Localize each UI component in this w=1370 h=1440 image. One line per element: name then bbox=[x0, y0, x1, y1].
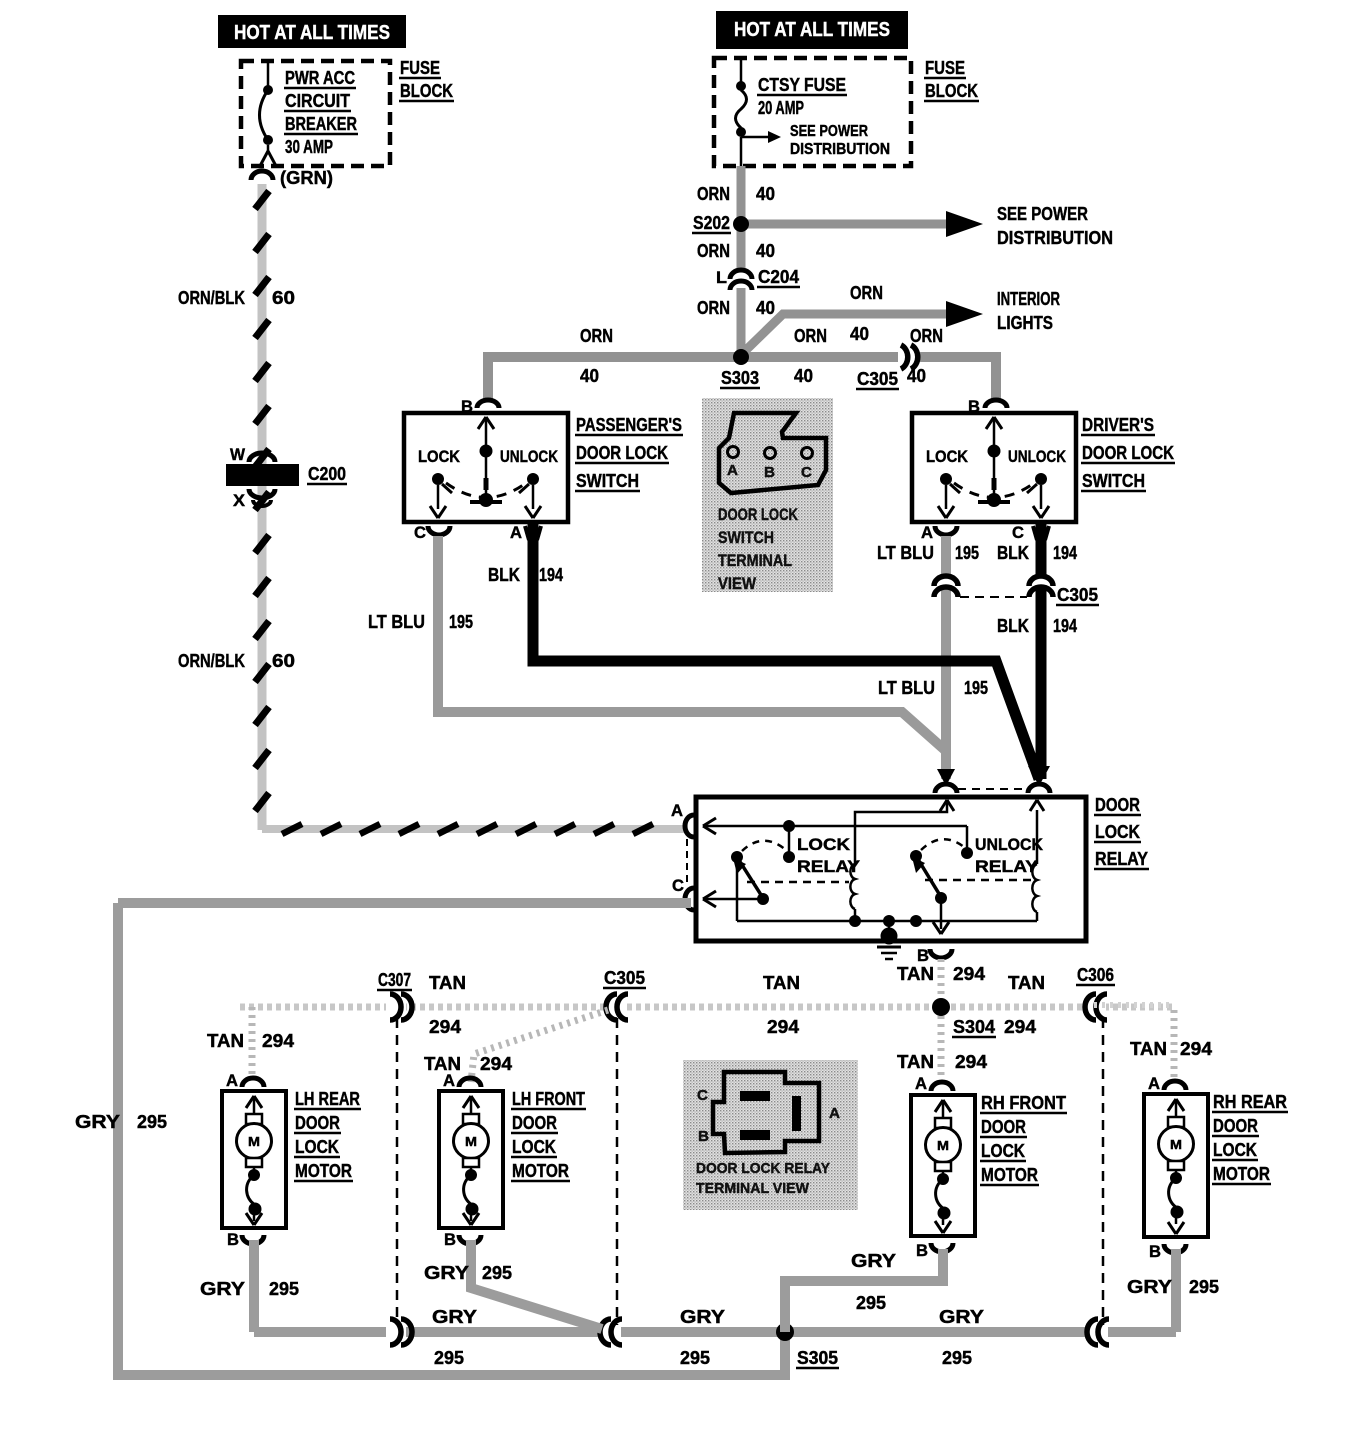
svg-text:LOCK: LOCK bbox=[926, 447, 969, 466]
svg-text:295: 295 bbox=[856, 1293, 886, 1313]
svg-text:LH FRONT: LH FRONT bbox=[512, 1089, 585, 1109]
svg-text:TAN: TAN bbox=[207, 1031, 244, 1051]
svg-text:ORN: ORN bbox=[697, 241, 730, 261]
svg-text:DOOR LOCK: DOOR LOCK bbox=[1082, 443, 1174, 463]
svg-text:195: 195 bbox=[449, 612, 473, 632]
svg-text:B: B bbox=[227, 1230, 239, 1249]
svg-text:BLK: BLK bbox=[997, 616, 1029, 636]
svg-text:40: 40 bbox=[580, 366, 599, 386]
svg-text:DISTRIBUTION: DISTRIBUTION bbox=[790, 141, 890, 158]
svg-text:SWITCH: SWITCH bbox=[576, 471, 639, 491]
svg-text:BREAKER: BREAKER bbox=[285, 114, 357, 134]
svg-text:294: 294 bbox=[429, 1017, 461, 1037]
svg-text:40: 40 bbox=[794, 366, 813, 386]
svg-text:294: 294 bbox=[955, 1052, 987, 1072]
svg-text:ORN: ORN bbox=[850, 283, 883, 303]
svg-text:B: B bbox=[1149, 1242, 1161, 1261]
svg-text:MOTOR: MOTOR bbox=[1213, 1164, 1270, 1184]
svg-text:LOCK: LOCK bbox=[797, 835, 851, 854]
svg-text:C305: C305 bbox=[857, 369, 898, 389]
svg-text:40: 40 bbox=[850, 324, 869, 344]
svg-text:194: 194 bbox=[539, 565, 563, 585]
svg-text:TAN: TAN bbox=[429, 973, 466, 993]
svg-text:S202: S202 bbox=[693, 213, 730, 233]
svg-text:295: 295 bbox=[434, 1348, 464, 1368]
svg-text:ORN/BLK: ORN/BLK bbox=[178, 288, 245, 308]
svg-text:X: X bbox=[233, 491, 246, 510]
svg-text:TAN: TAN bbox=[897, 1052, 934, 1072]
svg-text:C: C bbox=[672, 876, 684, 895]
svg-text:TAN: TAN bbox=[1008, 973, 1045, 993]
svg-text:SEE POWER: SEE POWER bbox=[790, 123, 868, 140]
svg-text:C200: C200 bbox=[308, 464, 346, 484]
svg-text:GRY: GRY bbox=[200, 1279, 245, 1299]
svg-text:295: 295 bbox=[1189, 1277, 1219, 1297]
svg-text:ORN: ORN bbox=[794, 326, 827, 346]
svg-text:ORN: ORN bbox=[697, 184, 730, 204]
svg-text:LT BLU: LT BLU bbox=[368, 612, 425, 632]
svg-text:LOCK: LOCK bbox=[981, 1141, 1025, 1161]
svg-text:DRIVER'S: DRIVER'S bbox=[1082, 415, 1154, 435]
svg-text:40: 40 bbox=[907, 366, 926, 386]
svg-text:MOTOR: MOTOR bbox=[295, 1161, 352, 1181]
svg-text:GRY: GRY bbox=[75, 1112, 120, 1132]
svg-text:DOOR LOCK RELAY: DOOR LOCK RELAY bbox=[696, 1160, 830, 1177]
svg-text:ORN: ORN bbox=[697, 298, 730, 318]
svg-text:B: B bbox=[968, 397, 980, 416]
svg-text:SEE POWER: SEE POWER bbox=[997, 204, 1088, 224]
svg-text:A: A bbox=[226, 1071, 238, 1090]
svg-text:TAN: TAN bbox=[897, 964, 934, 984]
svg-text:TAN: TAN bbox=[763, 973, 800, 993]
svg-text:295: 295 bbox=[942, 1348, 972, 1368]
svg-text:A: A bbox=[1148, 1074, 1160, 1093]
svg-text:195: 195 bbox=[955, 543, 979, 563]
svg-text:B: B bbox=[916, 1241, 928, 1260]
svg-text:40: 40 bbox=[756, 184, 775, 204]
svg-text:A: A bbox=[727, 462, 738, 479]
svg-text:C204: C204 bbox=[758, 267, 799, 287]
svg-text:CIRCUIT: CIRCUIT bbox=[285, 91, 350, 111]
svg-text:PWR ACC: PWR ACC bbox=[285, 68, 355, 88]
svg-text:40: 40 bbox=[756, 241, 775, 261]
svg-text:DISTRIBUTION: DISTRIBUTION bbox=[997, 228, 1113, 248]
svg-text:BLOCK: BLOCK bbox=[925, 81, 978, 101]
svg-text:A: A bbox=[921, 523, 933, 542]
svg-text:C: C bbox=[1012, 523, 1024, 542]
svg-text:C307: C307 bbox=[378, 970, 411, 990]
svg-text:294: 294 bbox=[1004, 1017, 1036, 1037]
svg-text:295: 295 bbox=[482, 1263, 512, 1283]
svg-text:LOCK: LOCK bbox=[512, 1137, 556, 1157]
svg-text:L: L bbox=[716, 268, 727, 287]
svg-text:A: A bbox=[915, 1074, 927, 1093]
svg-text:295: 295 bbox=[137, 1112, 167, 1132]
svg-text:294: 294 bbox=[1180, 1039, 1212, 1059]
svg-text:SWITCH: SWITCH bbox=[1082, 471, 1145, 491]
svg-text:B: B bbox=[444, 1230, 456, 1249]
svg-text:UNLOCK: UNLOCK bbox=[975, 835, 1044, 854]
svg-text:295: 295 bbox=[269, 1279, 299, 1299]
svg-text:20 AMP: 20 AMP bbox=[758, 98, 804, 118]
svg-text:C305: C305 bbox=[604, 968, 645, 988]
svg-text:S305: S305 bbox=[797, 1348, 838, 1368]
svg-text:M: M bbox=[937, 1138, 949, 1153]
svg-text:GRY: GRY bbox=[424, 1263, 469, 1283]
svg-text:LIGHTS: LIGHTS bbox=[997, 313, 1053, 333]
svg-text:60: 60 bbox=[272, 651, 295, 671]
svg-text:DOOR: DOOR bbox=[295, 1113, 340, 1133]
svg-text:ORN: ORN bbox=[580, 326, 613, 346]
svg-text:A: A bbox=[443, 1071, 455, 1090]
svg-text:HOT AT ALL TIMES: HOT AT ALL TIMES bbox=[734, 19, 890, 41]
svg-text:ORN: ORN bbox=[910, 326, 943, 346]
svg-text:RELAY: RELAY bbox=[1095, 849, 1148, 869]
svg-text:M: M bbox=[1170, 1137, 1182, 1152]
svg-text:B: B bbox=[917, 946, 929, 965]
svg-text:LOCK: LOCK bbox=[418, 447, 461, 466]
svg-text:M: M bbox=[465, 1134, 477, 1149]
svg-text:30 AMP: 30 AMP bbox=[285, 137, 333, 157]
svg-text:UNLOCK: UNLOCK bbox=[500, 447, 559, 466]
svg-text:S303: S303 bbox=[721, 368, 759, 388]
svg-text:VIEW: VIEW bbox=[718, 574, 757, 593]
svg-text:ORN/BLK: ORN/BLK bbox=[178, 651, 245, 671]
svg-text:TAN: TAN bbox=[1130, 1039, 1167, 1059]
svg-text:195: 195 bbox=[964, 678, 988, 698]
svg-text:PASSENGER'S: PASSENGER'S bbox=[576, 415, 682, 435]
svg-text:C: C bbox=[414, 523, 426, 542]
svg-text:SWITCH: SWITCH bbox=[718, 528, 774, 547]
svg-text:A: A bbox=[829, 1105, 840, 1122]
svg-text:W: W bbox=[230, 445, 246, 464]
svg-text:CTSY FUSE: CTSY FUSE bbox=[758, 75, 846, 95]
svg-text:LH REAR: LH REAR bbox=[295, 1089, 360, 1109]
svg-text:194: 194 bbox=[1053, 543, 1077, 563]
svg-text:GRY: GRY bbox=[851, 1251, 896, 1271]
svg-text:294: 294 bbox=[953, 964, 985, 984]
svg-text:A: A bbox=[510, 523, 522, 542]
svg-text:MOTOR: MOTOR bbox=[981, 1165, 1038, 1185]
svg-text:294: 294 bbox=[262, 1031, 294, 1051]
svg-text:C306: C306 bbox=[1077, 965, 1114, 985]
svg-text:LT BLU: LT BLU bbox=[877, 543, 934, 563]
svg-text:C305: C305 bbox=[1057, 585, 1098, 605]
svg-text:MOTOR: MOTOR bbox=[512, 1161, 569, 1181]
svg-text:GRY: GRY bbox=[1127, 1277, 1172, 1297]
svg-text:HOT AT ALL TIMES: HOT AT ALL TIMES bbox=[234, 22, 390, 44]
svg-text:TERMINAL: TERMINAL bbox=[718, 551, 792, 570]
svg-text:A: A bbox=[671, 801, 683, 820]
svg-text:LOCK: LOCK bbox=[1095, 822, 1140, 842]
svg-text:DOOR: DOOR bbox=[981, 1117, 1026, 1137]
svg-text:B: B bbox=[764, 464, 775, 481]
svg-text:194: 194 bbox=[1053, 616, 1077, 636]
svg-text:TERMINAL VIEW: TERMINAL VIEW bbox=[696, 1180, 810, 1197]
svg-text:LT BLU: LT BLU bbox=[878, 678, 935, 698]
svg-text:294: 294 bbox=[480, 1054, 512, 1074]
svg-text:FUSE: FUSE bbox=[925, 58, 965, 78]
svg-text:GRY: GRY bbox=[939, 1307, 984, 1327]
svg-text:C: C bbox=[697, 1087, 708, 1104]
svg-text:INTERIOR: INTERIOR bbox=[997, 289, 1060, 309]
svg-text:BLK: BLK bbox=[997, 543, 1029, 563]
svg-text:LOCK: LOCK bbox=[1213, 1140, 1257, 1160]
svg-text:DOOR LOCK: DOOR LOCK bbox=[718, 505, 799, 524]
svg-text:60: 60 bbox=[272, 288, 295, 308]
svg-text:LOCK: LOCK bbox=[295, 1137, 339, 1157]
svg-text:C: C bbox=[801, 464, 812, 481]
svg-text:B: B bbox=[461, 397, 473, 416]
svg-text:S304: S304 bbox=[953, 1017, 995, 1037]
svg-text:UNLOCK: UNLOCK bbox=[1008, 447, 1067, 466]
svg-text:GRY: GRY bbox=[432, 1307, 477, 1327]
svg-text:40: 40 bbox=[756, 298, 775, 318]
svg-text:DOOR: DOOR bbox=[1213, 1116, 1258, 1136]
svg-text:DOOR LOCK: DOOR LOCK bbox=[576, 443, 668, 463]
svg-text:RH REAR: RH REAR bbox=[1213, 1092, 1287, 1112]
svg-text:(GRN): (GRN) bbox=[280, 168, 333, 188]
svg-text:DOOR: DOOR bbox=[1095, 795, 1140, 815]
svg-text:BLK: BLK bbox=[488, 565, 520, 585]
svg-text:DOOR: DOOR bbox=[512, 1113, 557, 1133]
svg-text:RELAY: RELAY bbox=[975, 857, 1039, 876]
svg-text:GRY: GRY bbox=[680, 1307, 725, 1327]
svg-text:294: 294 bbox=[767, 1017, 799, 1037]
svg-text:B: B bbox=[698, 1128, 709, 1145]
svg-text:BLOCK: BLOCK bbox=[400, 81, 453, 101]
svg-text:M: M bbox=[248, 1134, 260, 1149]
svg-text:FUSE: FUSE bbox=[400, 58, 440, 78]
svg-text:RH FRONT: RH FRONT bbox=[981, 1093, 1066, 1113]
svg-text:295: 295 bbox=[680, 1348, 710, 1368]
